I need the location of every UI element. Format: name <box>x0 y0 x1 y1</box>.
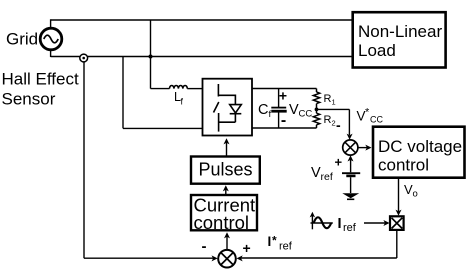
svg-text:Hall Effect: Hall Effect <box>2 70 79 89</box>
svg-text:f: f <box>269 109 272 120</box>
svg-text:I: I <box>268 234 272 249</box>
svg-text:1: 1 <box>332 98 336 107</box>
svg-text:ref: ref <box>321 171 333 183</box>
svg-text:C: C <box>258 102 268 118</box>
svg-text:Load: Load <box>358 41 396 60</box>
svg-text:Non-Linear: Non-Linear <box>358 22 442 41</box>
svg-text:ref: ref <box>343 222 357 234</box>
svg-text:Pulses: Pulses <box>198 160 252 180</box>
svg-text:DC voltage: DC voltage <box>378 137 462 156</box>
svg-text:o: o <box>413 189 418 200</box>
svg-text:I: I <box>338 216 342 232</box>
svg-text:control: control <box>378 156 429 175</box>
svg-text:-: - <box>202 238 207 255</box>
svg-text:ref: ref <box>279 241 293 253</box>
svg-text:Sensor: Sensor <box>2 90 56 109</box>
svg-text:R: R <box>324 114 332 126</box>
svg-text:CC: CC <box>299 109 313 120</box>
svg-text:-: - <box>336 117 341 133</box>
svg-text:+: + <box>335 155 343 170</box>
svg-text:-: - <box>281 112 286 129</box>
svg-text:*: * <box>272 234 277 248</box>
svg-text:CC: CC <box>370 115 383 125</box>
svg-text:R: R <box>324 93 332 105</box>
svg-text:V: V <box>311 165 321 181</box>
svg-text:V: V <box>289 102 299 118</box>
svg-text:Grid: Grid <box>6 30 38 49</box>
svg-text:control: control <box>194 212 250 233</box>
svg-text:+: + <box>279 88 287 104</box>
svg-text:+: + <box>243 240 251 256</box>
